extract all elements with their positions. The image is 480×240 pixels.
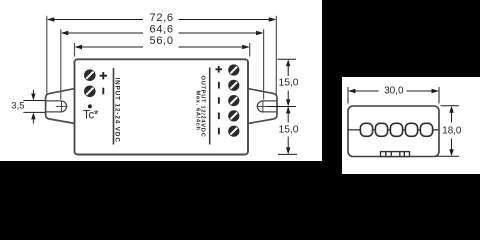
dimension 56,0 (75, 43, 250, 57)
left screw terminal 1 (84, 69, 96, 81)
Tc* marking with dot (83, 104, 99, 121)
svg-text:30,0: 30,0 (384, 85, 404, 96)
dimension 64,6 (61, 29, 264, 99)
dimension text 3,5 (11, 101, 24, 112)
side view screw hole 1 (360, 123, 372, 136)
dimension text 15,0 lower (278, 124, 298, 135)
right screw terminal 3 (228, 95, 239, 106)
right screw terminal 2 (228, 80, 239, 91)
svg-text:3,5: 3,5 (11, 101, 24, 112)
svg-text:72,6: 72,6 (150, 12, 174, 24)
OUTPUT 12/24VDC rotated label (200, 76, 206, 138)
side view screw hole 3 (390, 123, 402, 136)
side view center line (348, 129, 439, 131)
Max current rotated label (194, 91, 200, 131)
right mounting ear (248, 89, 277, 124)
dimension 30,0 (348, 87, 439, 104)
plus sign right block (216, 66, 223, 73)
module body outline (75, 59, 249, 154)
dimension text 15,0 upper (278, 77, 298, 88)
right screw terminal 1 (228, 64, 239, 75)
left ear slot center cross (56, 100, 68, 112)
terminal divider line right (209, 68, 211, 145)
svg-text:15,0: 15,0 (278, 77, 298, 88)
INPUT 12-24 VDC rotated label (114, 78, 121, 143)
dimension 3,5 (23, 90, 45, 124)
dimension 15,0 upper (267, 59, 296, 106)
svg-text:18,0: 18,0 (442, 126, 462, 137)
minus signs right block (218, 82, 220, 134)
right ear slot center cross (257, 100, 269, 112)
right screw terminal 4 (228, 110, 239, 121)
dimension text 72,6 (150, 12, 174, 24)
left mounting ear (46, 89, 75, 124)
bottom connector strip (381, 152, 410, 157)
dimension 15,0 lower (278, 106, 297, 154)
svg-text:Max. 6A/4ch: Max. 6A/4ch (194, 91, 200, 131)
svg-text:56,0: 56,0 (150, 35, 174, 47)
side view screw hole 5 (420, 123, 432, 136)
dimension text 56,0 (150, 35, 174, 47)
left white page card (0, 0, 322, 161)
plus sign left block (100, 72, 107, 79)
minus sign left block (102, 88, 104, 95)
svg-text:INPUT 12-24 VDC: INPUT 12-24 VDC (114, 78, 121, 143)
dimension text 18,0 (442, 126, 462, 137)
right screw terminal 5 (228, 126, 239, 137)
left screw terminal 2 (84, 86, 96, 98)
right white page card (342, 77, 480, 174)
side view screw hole 4 (405, 123, 417, 136)
side view screw hole 2 (375, 123, 387, 136)
svg-text:15,0: 15,0 (278, 124, 298, 135)
dimension text 64,6 (150, 24, 174, 36)
side view body outline (348, 106, 439, 157)
dimension 18,0 (436, 106, 459, 157)
dimension 72,6 (47, 16, 276, 95)
dimension text 30,0 (384, 85, 404, 96)
svg-text:Tc*: Tc* (83, 110, 99, 122)
terminal divider line left (113, 68, 115, 145)
svg-text:64,6: 64,6 (150, 24, 174, 36)
